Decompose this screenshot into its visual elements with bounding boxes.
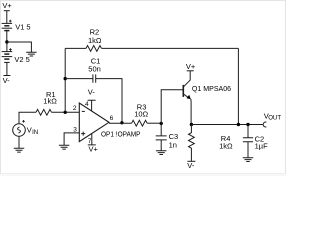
R1 designator label <box>46 90 56 99</box>
pin 7 stem to V+ <box>88 134 96 145</box>
voltage source VIN circle <box>13 124 26 137</box>
resistor R3 <box>132 120 148 126</box>
svg-text:IN: IN <box>32 129 38 136</box>
V- pin cap (R4) <box>187 160 195 162</box>
VOUT terminal arc <box>263 122 266 127</box>
battery V2 value label <box>14 55 29 64</box>
pin 4 label <box>85 101 89 108</box>
svg-text:V+: V+ <box>186 62 196 71</box>
net label V+ (pin 7) <box>89 144 99 153</box>
node op-amp output / C1 <box>120 121 123 124</box>
resistor R4 (vertical) <box>189 125 195 162</box>
VIN plus sign <box>22 120 25 123</box>
svg-text:1kΩ: 1kΩ <box>88 36 102 45</box>
svg-text:V2 5: V2 5 <box>14 55 29 64</box>
wire R3 to node <box>147 122 161 124</box>
battery V1 plates <box>2 22 13 24</box>
op-amp minus marker <box>82 110 85 112</box>
VIN label <box>27 126 38 136</box>
node R2/C1 left <box>63 77 66 80</box>
net label V- (below V2) <box>3 76 11 85</box>
output rail wire <box>191 124 262 126</box>
Q1 collector lead <box>184 71 191 87</box>
C2 value label 1uF <box>255 141 268 150</box>
node R3/C3/base <box>160 122 163 125</box>
R3 designator label <box>137 102 147 111</box>
VIN sine symbol <box>18 127 21 133</box>
wire to R2 <box>65 47 86 49</box>
svg-text:OP1 !OPAMP: OP1 !OPAMP <box>101 130 141 139</box>
svg-text:10Ω: 10Ω <box>134 110 148 119</box>
svg-text:1kΩ: 1kΩ <box>219 142 233 151</box>
wire op-amp output to R3 <box>109 122 132 124</box>
svg-text:V+: V+ <box>2 1 12 10</box>
V+ pin terminal cap <box>4 10 10 12</box>
resistor R2 <box>86 46 102 52</box>
wire op-amp pin 3 to ground <box>64 133 79 145</box>
Q1 emitter lead <box>184 94 188 97</box>
wire V2 to V- pin <box>6 62 8 75</box>
R1 value label 1k ohm <box>43 96 57 105</box>
svg-text:2: 2 <box>73 105 77 112</box>
ground (battery midpoint) <box>26 52 37 56</box>
wire V+ lead to battery V1 <box>6 11 8 24</box>
node emitter / output rail <box>190 123 193 126</box>
V- pin terminal cap <box>3 75 10 77</box>
svg-text:V: V <box>27 126 32 135</box>
svg-text:V1 5: V1 5 <box>15 23 30 32</box>
svg-text:1n: 1n <box>169 141 177 150</box>
node inverting input <box>63 111 66 114</box>
ground (op-amp pin 3) <box>59 145 70 149</box>
svg-text:V+: V+ <box>89 144 99 153</box>
wire feedback right vertical <box>237 48 239 124</box>
capacitor C1 plates <box>93 74 96 82</box>
svg-text:4: 4 <box>85 101 89 108</box>
battery V1 plus sign <box>9 20 12 23</box>
node C2 / rail <box>246 123 249 126</box>
svg-text:6: 6 <box>110 115 114 122</box>
resistor R1 <box>36 109 51 115</box>
net label V- (R4) <box>187 161 195 170</box>
capacitor C3 top stem <box>160 123 162 135</box>
R3 value label 10 ohm <box>134 110 148 119</box>
wire feedback vertical (R2/C1 left) <box>64 48 66 112</box>
pin 2 label <box>73 105 77 112</box>
VOUT label <box>264 111 282 121</box>
op-amp U1 triangle <box>79 103 109 142</box>
capacitor C2 plates <box>243 138 253 142</box>
wire R2 to feedback corner <box>102 47 239 49</box>
svg-text:Q1 MPSA06: Q1 MPSA06 <box>192 84 231 93</box>
R4 value label 1k ohm <box>219 142 233 151</box>
capacitor C2 bottom stem <box>247 142 249 158</box>
wire junction to ground <box>7 42 32 52</box>
svg-text:V-: V- <box>187 161 195 170</box>
C1 value label 50n <box>88 64 101 73</box>
ground (VIN) <box>14 148 25 152</box>
ground (C2) <box>243 158 254 162</box>
R2 designator label <box>90 28 100 37</box>
op-amp plus marker <box>81 132 85 136</box>
battery V2 plates <box>2 51 13 53</box>
Q1 designator label <box>192 84 231 93</box>
Q1 emitter wire down <box>190 99 192 125</box>
wire node up to transistor base <box>161 90 182 124</box>
wire VIN to ground <box>18 136 20 148</box>
border frame <box>0 1 286 177</box>
net label V+ (top left) <box>2 1 12 10</box>
wire junction to battery V2 <box>6 42 8 52</box>
R2 value label 1k ohm <box>88 36 102 45</box>
node feedback / rail <box>237 123 240 126</box>
pin 3 label <box>73 127 77 134</box>
battery V2 bottom terminal cap <box>4 61 10 63</box>
svg-text:50n: 50n <box>88 64 101 73</box>
svg-text:V-: V- <box>3 76 11 85</box>
ground (C3) <box>156 151 167 155</box>
capacitor C3 plates <box>156 136 167 140</box>
op-amp designator OP1 !OPAMP <box>101 130 141 139</box>
pin 6 label <box>110 115 114 122</box>
transistor Q1 body bar <box>182 85 184 97</box>
svg-text:1µF: 1µF <box>255 141 268 150</box>
wire VIN to R1 <box>19 112 36 123</box>
net label V+ (Q1) <box>186 62 196 71</box>
capacitor C1 left wire <box>65 78 93 80</box>
battery V1 value label <box>15 23 30 32</box>
battery V2 plus sign <box>9 48 12 51</box>
svg-text:V-: V- <box>88 88 96 97</box>
svg-text:1kΩ: 1kΩ <box>43 96 57 105</box>
svg-text:OUT: OUT <box>268 115 281 122</box>
capacitor C3 bottom stem <box>160 140 162 151</box>
pin 7 label <box>88 138 92 145</box>
V+ pin cap (Q1 collector) <box>187 70 194 72</box>
pin 4 stem to V- <box>88 100 96 111</box>
Q1 emitter arrow <box>187 95 191 99</box>
capacitor C1 right wire <box>96 79 122 123</box>
capacitor C2 top stem <box>247 125 249 138</box>
wire R1 to op-amp pin 2 <box>52 111 80 113</box>
C3 value label 1n <box>169 141 177 150</box>
C3 designator label <box>169 132 179 141</box>
net label V- (pin 4) <box>88 88 96 97</box>
C1 designator label <box>91 56 101 65</box>
wire V1 to junction <box>6 31 8 42</box>
C2 designator label <box>255 134 265 143</box>
R4 designator label <box>221 134 231 143</box>
node junction V1/V2/ground <box>5 40 8 43</box>
